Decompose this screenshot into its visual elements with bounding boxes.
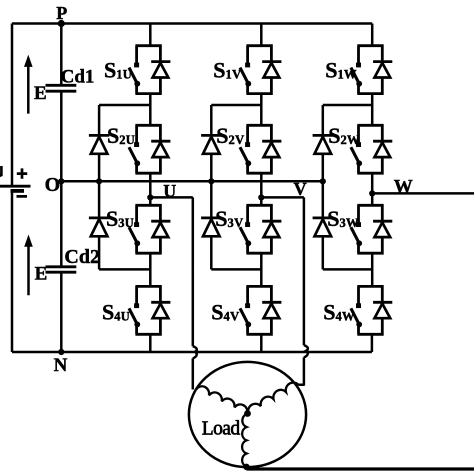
svg-text:V: V <box>294 179 307 199</box>
svg-text:P: P <box>56 3 67 23</box>
svg-text:Cd2: Cd2 <box>64 246 100 268</box>
svg-text:W: W <box>394 177 413 198</box>
svg-text:Cd1: Cd1 <box>61 66 95 87</box>
svg-text:U: U <box>163 181 176 201</box>
svg-text:E: E <box>35 264 48 285</box>
svg-text:Load: Load <box>202 419 241 440</box>
svg-text:O: O <box>45 174 61 196</box>
svg-text:E: E <box>34 83 47 104</box>
svg-text:N: N <box>54 355 68 376</box>
